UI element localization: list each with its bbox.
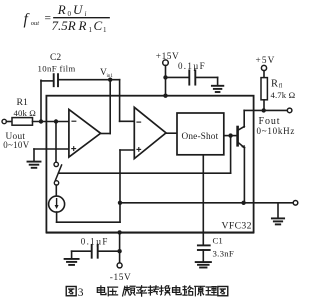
svg-text:-15V: -15V — [110, 273, 132, 283]
svg-text:C1: C1 — [213, 236, 223, 246]
svg-text:0: 0 — [68, 10, 72, 18]
svg-text:U: U — [73, 2, 84, 17]
svg-text:0~10V: 0~10V — [3, 140, 30, 150]
svg-text:in1: in1 — [107, 74, 114, 79]
svg-text:10nF film: 10nF film — [38, 64, 76, 74]
svg-text:R1: R1 — [17, 97, 29, 108]
svg-text:R: R — [271, 78, 278, 89]
svg-text:1: 1 — [103, 26, 107, 34]
svg-text:+5V: +5V — [256, 56, 276, 66]
svg-text:0~10kHz: 0~10kHz — [257, 126, 296, 136]
svg-text:R: R — [57, 2, 66, 17]
svg-text:40k Ω: 40k Ω — [14, 108, 37, 118]
svg-text:1: 1 — [89, 26, 93, 34]
svg-text:f: f — [24, 11, 31, 28]
svg-text:0.1µF: 0.1µF — [81, 237, 109, 247]
svg-text:=: = — [45, 13, 52, 25]
svg-text:0.1µF: 0.1µF — [178, 61, 206, 71]
svg-text:C2: C2 — [50, 53, 61, 63]
svg-text:i: i — [85, 10, 87, 18]
svg-text:out: out — [31, 20, 40, 27]
svg-text:3: 3 — [78, 287, 84, 299]
svg-text:C: C — [94, 18, 103, 33]
svg-text:3.3nF: 3.3nF — [213, 249, 235, 259]
svg-text:+15V: +15V — [156, 52, 179, 62]
svg-text:R: R — [78, 18, 87, 33]
svg-text:fl: fl — [279, 83, 283, 90]
svg-text:One-Shot: One-Shot — [182, 132, 219, 142]
svg-text:7.5R: 7.5R — [52, 18, 76, 33]
svg-text:VFC32: VFC32 — [222, 220, 252, 231]
svg-text:4.7k Ω: 4.7k Ω — [271, 90, 296, 100]
